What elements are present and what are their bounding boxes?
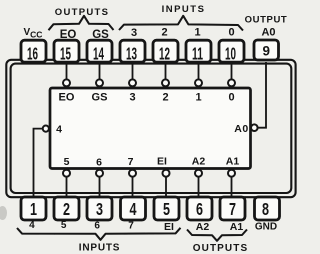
svg-text:2: 2 bbox=[162, 92, 168, 104]
svg-text:3: 3 bbox=[96, 199, 103, 219]
scan smudge artifact left edge bbox=[0, 206, 7, 220]
brace over outputs EO GS bbox=[49, 16, 114, 30]
svg-text:A0: A0 bbox=[261, 27, 275, 39]
svg-text:9: 9 bbox=[262, 43, 270, 59]
svg-text:GND: GND bbox=[255, 222, 277, 233]
svg-text:0: 0 bbox=[228, 27, 234, 39]
svg-text:15: 15 bbox=[60, 43, 71, 63]
svg-text:7: 7 bbox=[229, 199, 236, 219]
wire pin 11 to input 1 bubble bbox=[198, 62, 200, 80]
wire pin 13 to input 3 bubble bbox=[132, 62, 134, 80]
svg-text:3: 3 bbox=[129, 92, 135, 104]
svg-text:5: 5 bbox=[61, 220, 67, 231]
pin 7 box bbox=[220, 197, 245, 220]
wire pin 7 to A1 bubble bbox=[231, 176, 233, 197]
svg-text:INPUTS: INPUTS bbox=[162, 4, 206, 15]
svg-text:OUTPUTS: OUTPUTS bbox=[193, 243, 248, 254]
wire VCC loop pin 16 around outer edge to pin 8 bbox=[6, 60, 295, 197]
svg-text:4: 4 bbox=[56, 124, 62, 136]
bubble A2 pin 6 bbox=[195, 170, 202, 177]
pin 16 box bbox=[21, 40, 46, 62]
svg-text:OUTPUTS: OUTPUTS bbox=[55, 7, 110, 18]
wire pin 4 to input 7 bubble bbox=[132, 176, 134, 197]
svg-text:GS: GS bbox=[92, 29, 109, 41]
wire pin 10 to input 0 bubble bbox=[231, 62, 233, 80]
svg-text:A2: A2 bbox=[196, 221, 210, 233]
svg-text:A2: A2 bbox=[192, 156, 206, 168]
pin 8 box bbox=[255, 197, 280, 220]
svg-text:1: 1 bbox=[195, 92, 201, 104]
svg-text:6: 6 bbox=[94, 220, 100, 231]
svg-text:0: 0 bbox=[228, 92, 234, 104]
bubble output A0 right edge bbox=[251, 124, 258, 131]
svg-text:OUTPUT: OUTPUT bbox=[245, 15, 288, 26]
pin 15 box bbox=[54, 40, 79, 62]
svg-text:GS: GS bbox=[92, 92, 108, 104]
bubble EO pin 15 bbox=[63, 79, 70, 86]
bubble input 3 pin 13 bbox=[129, 79, 136, 86]
pin 3 box bbox=[87, 197, 112, 220]
pin 9 box bbox=[254, 40, 279, 60]
svg-text:10: 10 bbox=[225, 43, 236, 63]
svg-text:7: 7 bbox=[128, 220, 134, 231]
wire pin 2 to input 5 bubble bbox=[66, 176, 68, 197]
bubble input 2 pin 12 bbox=[162, 79, 169, 86]
pin 4 box bbox=[121, 197, 146, 220]
pin 11 box bbox=[186, 40, 211, 62]
svg-text:2: 2 bbox=[63, 199, 70, 219]
svg-text:1: 1 bbox=[30, 199, 37, 219]
svg-text:8: 8 bbox=[262, 199, 269, 219]
bubble A1 pin 7 bbox=[228, 170, 235, 177]
pin 6 box bbox=[187, 197, 212, 220]
wire pin 9 to A0 bubble bbox=[257, 62, 266, 128]
svg-text:14: 14 bbox=[93, 43, 104, 63]
svg-text:A0: A0 bbox=[234, 123, 248, 135]
bubble input 0 pin 10 bbox=[228, 79, 235, 86]
bubble input 6 pin 3 bbox=[96, 170, 103, 177]
svg-text:3: 3 bbox=[131, 27, 137, 39]
svg-text:5: 5 bbox=[163, 199, 170, 219]
svg-text:5: 5 bbox=[64, 156, 70, 168]
svg-text:EO: EO bbox=[60, 29, 77, 41]
bubble GS pin 14 bbox=[96, 79, 103, 86]
svg-text:1: 1 bbox=[194, 27, 200, 39]
wire pin 1 to input 4 bubble bbox=[34, 129, 44, 197]
brace over inputs 3 2 1 0 bbox=[119, 16, 243, 31]
svg-text:INPUTS: INPUTS bbox=[79, 242, 120, 253]
svg-text:EI: EI bbox=[164, 221, 174, 233]
pin 5 box bbox=[154, 197, 179, 220]
svg-text:11: 11 bbox=[192, 43, 203, 63]
pin 14 box bbox=[87, 40, 112, 62]
pin 10 box bbox=[219, 40, 244, 62]
brace under inputs 4 5 6 7 EI bbox=[17, 228, 181, 240]
svg-text:EO: EO bbox=[59, 92, 75, 104]
svg-text:VCC: VCC bbox=[24, 27, 43, 40]
svg-text:12: 12 bbox=[159, 43, 170, 63]
svg-text:4: 4 bbox=[29, 220, 35, 231]
svg-text:4: 4 bbox=[130, 199, 137, 219]
bubble input 4 left edge bbox=[43, 126, 49, 132]
svg-text:A1: A1 bbox=[230, 221, 244, 233]
bubble EI pin 5 bbox=[163, 170, 170, 177]
brace under outputs A2 A1 bbox=[187, 230, 247, 241]
wire pin 6 to A2 bubble bbox=[198, 176, 200, 197]
wire pin 5 to EI bubble bbox=[165, 176, 167, 197]
svg-text:6: 6 bbox=[196, 199, 203, 219]
bubble input 1 pin 11 bbox=[195, 79, 202, 86]
svg-text:16: 16 bbox=[27, 43, 38, 63]
pin 12 box bbox=[153, 40, 178, 62]
wire pin 14 to GS bubble bbox=[99, 62, 101, 80]
pin 2 box bbox=[54, 197, 79, 220]
svg-text:6: 6 bbox=[96, 157, 102, 169]
pin 1 box bbox=[21, 197, 46, 220]
wire pin 12 to input 2 bubble bbox=[165, 62, 167, 80]
svg-text:A1: A1 bbox=[226, 156, 240, 168]
svg-text:7: 7 bbox=[128, 156, 134, 168]
encoder block U1 body bbox=[50, 88, 251, 169]
svg-text:EI: EI bbox=[157, 156, 167, 168]
svg-text:13: 13 bbox=[126, 43, 137, 63]
wire pin 15 to EO bubble bbox=[66, 62, 68, 80]
package outline DIP-16 body bbox=[11, 64, 292, 193]
bubble input 5 pin 2 bbox=[63, 170, 70, 177]
bubble input 7 pin 4 bbox=[129, 170, 136, 177]
wire pin 3 to input 6 bubble bbox=[99, 176, 101, 197]
svg-text:2: 2 bbox=[161, 27, 167, 39]
pin 13 box bbox=[120, 40, 145, 62]
